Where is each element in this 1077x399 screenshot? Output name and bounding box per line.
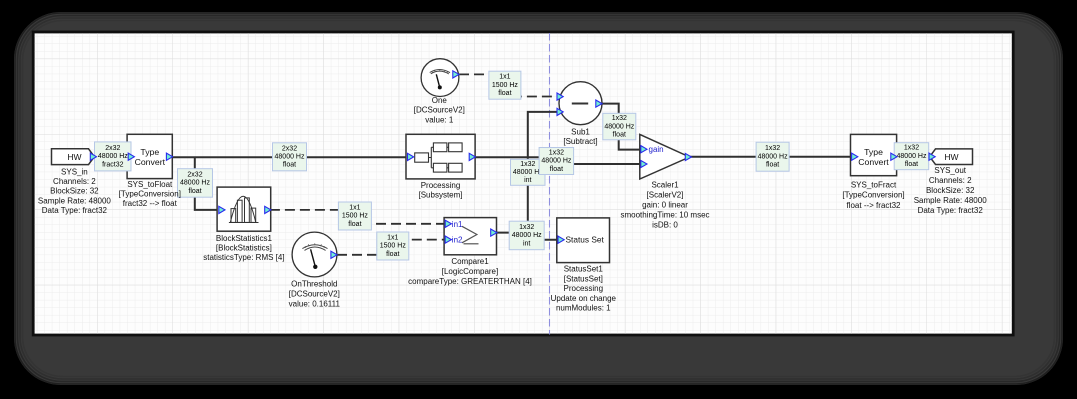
wire Processing output to Scaler1 signal input <box>475 157 641 164</box>
svg-text:float: float <box>188 188 201 195</box>
wire label StatusSet in 1x32 48000Hz int <box>509 221 544 250</box>
svg-text:StatusSet1: StatusSet1 <box>564 265 604 274</box>
svg-text:float: float <box>550 166 563 173</box>
port Scaler1 gain input <box>641 146 647 153</box>
svg-text:1500 Hz: 1500 Hz <box>492 82 519 89</box>
svg-text:float: float <box>905 161 918 168</box>
wire SYS_toFloat output to Processing input <box>172 156 407 158</box>
port Scaler1 output <box>685 153 691 160</box>
svg-text:[DCSourceV2]: [DCSourceV2] <box>414 106 465 115</box>
text annotation SYS_toFloat <box>119 180 181 208</box>
svg-text:Convert: Convert <box>858 157 889 167</box>
port Compare1 output <box>491 229 497 236</box>
block Scaler1 (ScalerV2 triangle) <box>640 134 690 179</box>
text annotation SYS_toFract <box>842 180 904 209</box>
svg-text:SYS_toFloat: SYS_toFloat <box>127 180 173 189</box>
svg-text:in2: in2 <box>452 236 463 245</box>
block SYS_toFract (Type Convert) <box>851 134 897 175</box>
svg-text:value: 1: value: 1 <box>425 115 454 124</box>
text annotation SYS_in <box>38 168 111 215</box>
source OnThreshold (DCSourceV2 gauge) <box>292 232 337 277</box>
port BlockStatistics1 input <box>219 206 225 213</box>
svg-text:Data Type: fract32: Data Type: fract32 <box>918 206 984 215</box>
port Compare1 in1 <box>445 220 451 227</box>
svg-text:[TypeConversion]: [TypeConversion] <box>119 190 181 199</box>
wire label SYS_in 2x32 48000Hz fract32 <box>95 142 132 171</box>
svg-text:1x32: 1x32 <box>765 145 780 152</box>
svg-text:[BlockStatistics]: [BlockStatistics] <box>216 244 272 253</box>
svg-text:float: float <box>613 132 626 139</box>
source One (DCSourceV2 gauge) <box>421 59 459 97</box>
svg-text:[TypeConversion]: [TypeConversion] <box>842 191 904 200</box>
port StatusSet1 input <box>558 236 564 243</box>
svg-text:2x32: 2x32 <box>282 145 297 152</box>
block Processing (Subsystem) <box>406 134 475 179</box>
text annotation StatusSet1 <box>551 265 617 313</box>
wire label Sub1 out 1x32 48000Hz float <box>603 113 636 140</box>
block SYS_in (HW input pentagon) <box>52 149 95 165</box>
block SYS_out (HW output pentagon) <box>930 149 973 165</box>
svg-text:gain: 0 linear: gain: 0 linear <box>642 200 688 209</box>
svg-text:Processing: Processing <box>421 181 461 190</box>
dashed wire OnThreshold output to Compare1 in2 <box>337 240 446 255</box>
port SYS_toFloat output <box>166 153 172 160</box>
svg-text:in1: in1 <box>452 220 463 229</box>
svg-text:int: int <box>523 240 530 247</box>
svg-text:48000 Hz: 48000 Hz <box>275 154 305 161</box>
block StatusSet1 <box>557 218 610 263</box>
svg-text:[Subtract]: [Subtract] <box>563 137 597 146</box>
svg-text:float --> fract32: float --> fract32 <box>846 201 901 210</box>
svg-text:statisticsType: RMS [4]: statisticsType: RMS [4] <box>203 253 284 262</box>
port BlockStatistics1 output <box>265 206 271 213</box>
svg-text:1500 Hz: 1500 Hz <box>380 243 407 250</box>
svg-text:Status Set: Status Set <box>566 235 605 245</box>
wire label Processing out 1x32 48000Hz float <box>539 148 574 175</box>
wire label main 2x32 48000Hz float <box>273 143 307 171</box>
svg-text:float: float <box>766 162 779 169</box>
block Sub1 (Subtract circle) <box>559 82 602 125</box>
svg-text:fract32 --> float: fract32 --> float <box>123 199 178 208</box>
block Compare1 (LogicCompare) <box>444 218 496 255</box>
svg-text:Compare1: Compare1 <box>451 257 489 266</box>
port Sub1 input 2 <box>557 108 563 115</box>
svg-text:smoothingTime: 10 msec: smoothingTime: 10 msec <box>620 211 709 220</box>
text annotation Sub1 <box>563 128 597 147</box>
svg-text:Data Type: fract32: Data Type: fract32 <box>42 206 108 215</box>
svg-text:BlockSize: 32: BlockSize: 32 <box>50 187 99 196</box>
svg-text:1x1: 1x1 <box>349 205 360 212</box>
svg-text:48000 Hz: 48000 Hz <box>512 232 542 239</box>
text annotation Scaler1 <box>620 180 709 229</box>
wire label SYS_out 1x32 48000Hz float <box>894 143 929 170</box>
svg-text:1x32: 1x32 <box>612 115 627 122</box>
svg-text:1500 Hz: 1500 Hz <box>342 213 369 220</box>
dashed wire One output to Sub1 input 1 <box>459 74 558 96</box>
wire label BlockStatistics1 out 1x1 1500Hz float <box>338 202 371 230</box>
svg-text:Sub1: Sub1 <box>571 128 590 137</box>
svg-text:Update on change: Update on change <box>551 294 617 303</box>
svg-text:BlockStatistics1: BlockStatistics1 <box>216 234 273 243</box>
svg-text:1x1: 1x1 <box>387 235 398 242</box>
svg-text:compareType: GREATERTHAN [4]: compareType: GREATERTHAN [4] <box>408 277 532 286</box>
svg-text:2x32: 2x32 <box>105 145 120 152</box>
svg-text:SYS_in: SYS_in <box>61 168 88 177</box>
svg-text:fract32: fract32 <box>102 161 124 168</box>
svg-text:Processing: Processing <box>564 284 604 293</box>
wire label Scaler1 out 1x32 48000Hz float <box>756 142 789 171</box>
wire junction down to StatusSet1 input net <box>527 157 529 240</box>
wire label One out 1x1 1500Hz float <box>489 71 521 99</box>
svg-text:1x32: 1x32 <box>904 145 919 152</box>
wire label junction 1x32 48000Hz int upper <box>511 159 546 185</box>
port Sub1 output <box>596 100 602 107</box>
svg-text:Type: Type <box>864 147 883 157</box>
port SYS_toFract output <box>891 153 897 160</box>
svg-text:SYS_out: SYS_out <box>934 166 966 175</box>
svg-text:[StatusSet]: [StatusSet] <box>564 274 603 283</box>
svg-text:48000 Hz: 48000 Hz <box>541 158 571 165</box>
port SYS_toFract input <box>852 153 858 160</box>
svg-text:gain: gain <box>649 145 664 154</box>
svg-text:1x32: 1x32 <box>520 161 535 168</box>
text annotation OnThreshold <box>289 280 341 309</box>
svg-text:value: 0.16111: value: 0.16111 <box>289 300 341 309</box>
svg-text:Type: Type <box>140 147 159 157</box>
wire junction up to Sub1 input 2 <box>528 112 558 157</box>
svg-text:HW: HW <box>67 152 81 162</box>
text annotation Compare1 <box>408 257 532 286</box>
port OnThreshold output <box>331 251 337 258</box>
svg-text:1x32: 1x32 <box>549 150 564 157</box>
svg-text:[DCSourceV2]: [DCSourceV2] <box>289 290 340 299</box>
svg-text:SYS_toFract: SYS_toFract <box>851 180 897 189</box>
svg-text:numModules: 1: numModules: 1 <box>556 304 611 313</box>
svg-text:isDB: 0: isDB: 0 <box>652 221 678 230</box>
wire Compare1 output to StatusSet1 input <box>497 233 559 240</box>
svg-text:float: float <box>348 221 361 228</box>
port Processing output <box>469 153 475 160</box>
text annotation SYS_out <box>914 166 987 215</box>
svg-text:float: float <box>498 90 511 97</box>
text annotation Processing <box>418 181 462 200</box>
svg-text:Sample Rate: 48000: Sample Rate: 48000 <box>914 196 987 205</box>
svg-text:48000 Hz: 48000 Hz <box>758 153 788 160</box>
port One output <box>453 71 459 78</box>
block SYS_toFloat (Type Convert) <box>127 134 172 178</box>
svg-text:[Subsystem]: [Subsystem] <box>418 191 462 200</box>
svg-text:1x1: 1x1 <box>499 74 510 81</box>
svg-text:float: float <box>283 162 296 169</box>
svg-text:OnThreshold: OnThreshold <box>291 280 337 289</box>
svg-text:Channels: 2: Channels: 2 <box>53 177 96 186</box>
svg-text:int: int <box>524 177 531 184</box>
wire Sub1 output to Scaler1 gain input <box>602 104 641 150</box>
svg-text:Convert: Convert <box>135 157 166 167</box>
block BlockStatistics1 <box>217 187 271 231</box>
text annotation One <box>414 96 465 125</box>
svg-text:HW: HW <box>944 152 958 162</box>
svg-text:1x32: 1x32 <box>519 224 534 231</box>
svg-text:Channels: 2: Channels: 2 <box>929 176 972 185</box>
port SYS_in output <box>90 153 96 160</box>
svg-text:One: One <box>432 96 448 105</box>
svg-text:Sample Rate: 48000: Sample Rate: 48000 <box>38 196 111 205</box>
svg-text:48000 Hz: 48000 Hz <box>604 123 634 130</box>
text annotation BlockStatistics1 <box>203 234 284 262</box>
wire label OnThreshold out 1x1 1500Hz float <box>377 232 409 260</box>
svg-text:float: float <box>386 251 399 258</box>
svg-text:[LogicCompare]: [LogicCompare] <box>442 267 498 276</box>
port Compare1 in2 <box>445 236 451 243</box>
port SYS_out input <box>929 153 935 160</box>
wire Scaler1 output to SYS_toFract input <box>689 156 851 158</box>
port Scaler1 signal input <box>641 160 647 167</box>
port SYS_toFloat input <box>128 153 134 160</box>
dashed wire BlockStatistics1 output to Compare1 in1 <box>270 210 446 224</box>
wire SYS_toFract output to SYS_out <box>897 156 930 158</box>
svg-text:BlockSize: 32: BlockSize: 32 <box>926 186 975 195</box>
svg-text:48000 Hz: 48000 Hz <box>180 180 210 187</box>
svg-text:[ScalerV2]: [ScalerV2] <box>647 190 684 199</box>
svg-text:48000 Hz: 48000 Hz <box>897 153 927 160</box>
wire label to BlockStatistics1 2x32 48000Hz float <box>178 169 213 198</box>
dashed partition divider line <box>549 33 551 335</box>
wire branch junction down to BlockStatistics1 input <box>195 157 219 210</box>
svg-text:48000 Hz: 48000 Hz <box>98 153 128 160</box>
svg-text:2x32: 2x32 <box>187 171 202 178</box>
port Processing input <box>408 153 414 160</box>
svg-text:Scaler1: Scaler1 <box>651 180 679 189</box>
port Sub1 input 1 <box>557 93 563 100</box>
